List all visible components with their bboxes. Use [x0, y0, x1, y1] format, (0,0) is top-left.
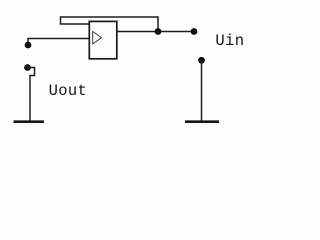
node feedback junction [155, 28, 162, 35]
svg-text:Uin: Uin [215, 32, 244, 50]
svg-text:Uout: Uout [49, 82, 88, 100]
op-amp U1 body [89, 21, 117, 58]
op-amp U1 triangle [93, 32, 102, 44]
wire feedback left vertical [60, 16, 62, 24]
wire Uout port stub [27, 38, 29, 45]
ground right [185, 120, 219, 123]
node Uout plus terminal [25, 42, 32, 49]
wire feedback top segment [61, 16, 159, 18]
wire Uout minus hook [28, 68, 35, 122]
node Uout minus terminal [24, 64, 31, 71]
node Uin minus terminal [198, 57, 205, 64]
node Uin plus terminal [191, 28, 198, 35]
wire output segment [117, 31, 194, 33]
wire noninverting input segment [28, 38, 90, 40]
wire Uin minus vertical [201, 60, 203, 121]
wire feedback right vertical [157, 16, 159, 31]
ground left [14, 120, 45, 123]
wire inverting input segment [60, 23, 90, 25]
